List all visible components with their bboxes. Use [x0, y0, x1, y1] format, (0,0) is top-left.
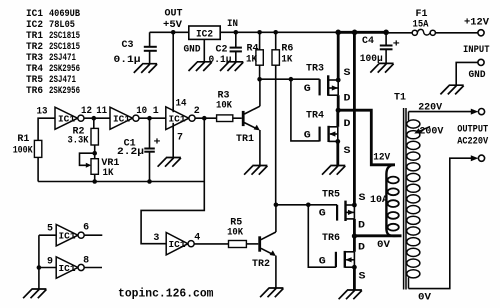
ground (TR6 source) — [339, 290, 362, 299]
node R6-TR2 junction — [274, 203, 279, 208]
wire IC2 gnd pin — [203, 39, 205, 61]
arrow 200V tap pointer — [414, 127, 430, 134]
label pin 6 — [83, 223, 89, 234]
label F1 15A — [413, 9, 429, 31]
node TR3 source junction — [336, 78, 341, 83]
node gate branch junction — [289, 77, 294, 82]
svg-text:2.2μ: 2.2μ — [117, 147, 144, 158]
label pin 5 — [47, 224, 53, 235]
svg-text:T1: T1 — [394, 93, 406, 104]
transistor Q5 TR5 mosfet — [337, 32, 354, 236]
capacitor C1 — [144, 118, 155, 181]
label GND pin — [184, 45, 201, 56]
wire gate bus TR3/TR4 — [260, 79, 320, 141]
node +5V junction — [171, 30, 176, 35]
svg-text:12: 12 — [81, 106, 92, 117]
svg-text:+: + — [393, 40, 400, 51]
node R4-TR1 junction — [257, 77, 262, 82]
svg-text:D: D — [358, 221, 365, 232]
svg-text:5: 5 — [47, 224, 53, 235]
transistor Q1 TR1 — [243, 79, 260, 165]
label S (TR5) — [359, 193, 366, 204]
node rail-TR5 junction — [352, 30, 358, 36]
svg-text:+5V: +5V — [163, 20, 182, 31]
node R4 top junction — [257, 30, 262, 35]
node OUT +5V label — [163, 9, 183, 32]
svg-text:1: 1 — [153, 106, 159, 117]
label pin 10 — [136, 106, 147, 117]
svg-text:100K: 100K — [13, 146, 33, 157]
ground (IC2) — [189, 62, 212, 71]
node R6 top junction — [273, 30, 278, 35]
ground (C3) — [134, 64, 157, 73]
label pin 14 — [176, 99, 187, 110]
svg-text:7: 7 — [177, 133, 183, 144]
svg-text:C4: C4 — [362, 36, 374, 47]
svg-text:8: 8 — [83, 255, 89, 266]
label D (TR4) — [344, 119, 351, 130]
svg-text:IN: IN — [227, 19, 238, 30]
label pin 8 — [83, 255, 89, 266]
label R4 value — [246, 44, 259, 66]
parts list text — [26, 9, 80, 97]
wire inv3 out to R3 — [195, 117, 217, 119]
inductor T1 secondary winding — [407, 112, 420, 289]
op-amp U2 inverter IC1b — [110, 107, 139, 129]
label 12V — [373, 153, 390, 164]
label S (TR4) — [344, 146, 351, 157]
svg-text:9: 9 — [47, 257, 53, 268]
terminal output 220V — [478, 109, 484, 115]
node TR6 source junction — [352, 265, 357, 270]
svg-text:4069UB: 4069UB — [49, 9, 80, 20]
svg-text:topinc.126.com: topinc.126.com — [118, 288, 214, 301]
svg-text:2SJ471: 2SJ471 — [49, 53, 76, 64]
svg-text:TR2: TR2 — [26, 42, 43, 53]
label G (TR6) — [319, 257, 326, 268]
resistor R5 — [229, 241, 259, 248]
label +12V INPUT — [463, 17, 490, 56]
watermark text — [118, 288, 214, 301]
svg-text:1K: 1K — [246, 55, 257, 66]
node gate branch junction 2 — [306, 203, 311, 208]
wire oscillator bottom bus — [38, 181, 204, 183]
label GND input — [469, 70, 486, 81]
svg-text:IC1: IC1 — [58, 115, 76, 125]
svg-text:2SJ471: 2SJ471 — [49, 75, 76, 86]
transformer core — [404, 108, 406, 290]
wire drain node 2 to primary bottom — [354, 234, 401, 237]
label C3 value — [114, 40, 141, 66]
svg-text:0V: 0V — [377, 240, 390, 251]
svg-text:2SC1815: 2SC1815 — [49, 42, 80, 53]
label C1 value — [117, 138, 161, 159]
svg-text:+: + — [154, 138, 161, 149]
node rail-TR3 junction — [335, 30, 341, 36]
wire pin14/pin7 vertical — [172, 32, 174, 157]
ground (pin7) — [158, 158, 181, 167]
ground (TR1 emitter) — [244, 166, 267, 175]
wire pin2 feedback down — [141, 118, 204, 244]
transistor Q6 TR6 mosfet — [336, 236, 355, 290]
wire inv4 out to R5 — [194, 243, 228, 245]
transistor Q2 TR2 — [260, 205, 276, 288]
node IN label — [227, 19, 238, 30]
label pin 1 — [153, 106, 159, 117]
svg-text:10K: 10K — [216, 101, 232, 112]
label TR2 — [252, 259, 270, 270]
node rail-C4 junction — [383, 30, 389, 36]
op-amp U5 inverter IC1e unused — [39, 224, 102, 246]
node 12 junction — [92, 116, 97, 121]
terminal output 2 — [478, 155, 484, 161]
label S (TR3) — [344, 68, 351, 79]
label TR1 — [236, 134, 254, 145]
resistor R4 — [256, 32, 263, 79]
label G (TR5) — [319, 208, 326, 219]
svg-text:15A: 15A — [413, 20, 429, 31]
node pin1 junction — [147, 116, 152, 121]
ground (TR4 source) — [322, 166, 345, 175]
wire rail to fuse — [387, 32, 412, 34]
svg-text:2: 2 — [194, 106, 200, 117]
svg-text:D: D — [344, 119, 351, 130]
transformer T1 label — [394, 93, 406, 104]
transistor Q3 TR3 mosfet — [320, 32, 339, 110]
svg-text:2SK2956: 2SK2956 — [49, 64, 80, 75]
label TR5 — [322, 190, 340, 201]
svg-text:S: S — [359, 272, 366, 283]
svg-text:78L05: 78L05 — [49, 20, 75, 31]
label D (TR3) — [344, 94, 351, 105]
svg-text:0.1μ: 0.1μ — [114, 55, 141, 66]
svg-text:10K: 10K — [227, 228, 243, 239]
svg-text:3.3K: 3.3K — [68, 135, 89, 146]
wire +5V out — [150, 31, 189, 33]
resistor R1 — [34, 140, 41, 181]
label 0V secondary — [418, 293, 431, 304]
svg-text:10: 10 — [136, 106, 147, 117]
svg-text:+12V: +12V — [464, 17, 489, 28]
ground (C2) — [220, 62, 243, 71]
op-amp U3 inverter IC1c — [166, 107, 195, 130]
label R1 value — [13, 134, 33, 157]
svg-text:TR5: TR5 — [322, 190, 340, 201]
label pin 12 — [81, 106, 92, 117]
svg-text:S: S — [344, 146, 351, 157]
svg-text:IC1: IC1 — [59, 232, 77, 242]
potentiometer VR1 — [80, 153, 99, 181]
svg-text:2SK2956: 2SK2956 — [49, 86, 80, 97]
svg-text:14: 14 — [176, 99, 187, 110]
label 200V — [419, 127, 443, 138]
svg-text:C2: C2 — [216, 45, 228, 56]
svg-text:OUTPUT: OUTPUT — [457, 124, 488, 135]
svg-text:11: 11 — [96, 106, 107, 117]
svg-text:R4: R4 — [247, 44, 259, 55]
wire GND terminal down — [456, 62, 478, 85]
svg-text:INPUT: INPUT — [463, 45, 490, 56]
transistor Q4 TR4 mosfet — [320, 110, 338, 165]
label pin 7 — [177, 133, 183, 144]
label pin 11 — [96, 106, 107, 117]
svg-text:S: S — [344, 68, 351, 79]
node TR5 source junction — [352, 203, 357, 208]
svg-text:AC220V: AC220V — [457, 137, 488, 148]
svg-text:G: G — [304, 84, 311, 95]
wire +12V rail thick — [337, 31, 387, 34]
svg-text:0V: 0V — [418, 293, 431, 304]
wire 220V tap — [409, 111, 475, 113]
svg-text:TR3: TR3 — [306, 64, 324, 75]
terminal GND input — [478, 59, 484, 65]
node TR5/TR6 drain junction — [352, 233, 357, 238]
label D (TR5) — [358, 221, 365, 232]
wire inv1 out — [84, 117, 110, 119]
svg-text:D: D — [358, 243, 365, 254]
node TR4 source junction — [335, 139, 340, 144]
svg-text:C3: C3 — [122, 40, 134, 51]
wire secondary bottom to output terminal — [409, 158, 475, 288]
wire IC2 to IN rail — [220, 31, 338, 33]
node unused input junction — [37, 265, 42, 270]
arrow output 2 — [471, 155, 479, 161]
label 0V primary — [377, 240, 390, 251]
inductor T1 primary winding — [386, 165, 398, 236]
svg-text:13: 13 — [37, 106, 48, 117]
label R3 value — [216, 91, 232, 112]
op-amp U6 inverter IC1f unused — [39, 257, 102, 279]
op-amp U1 inverter IC1a — [55, 107, 84, 129]
label TR6 — [322, 233, 340, 244]
wire pin13 input — [38, 118, 55, 140]
capacitor C3 — [144, 32, 157, 63]
svg-text:4: 4 — [194, 233, 200, 244]
label D (TR6) — [358, 243, 365, 254]
wire unused inputs to ground — [38, 235, 40, 289]
svg-text:R1: R1 — [17, 134, 29, 145]
ground (input GND) — [440, 85, 463, 94]
wire drain node to primary top — [338, 110, 395, 165]
resistor R2 — [91, 118, 98, 159]
svg-text:IC1: IC1 — [113, 115, 131, 125]
label R5 value — [227, 218, 243, 239]
label G (TR3) — [304, 84, 311, 95]
svg-text:6: 6 — [83, 223, 89, 234]
svg-text:1K: 1K — [103, 168, 114, 179]
node pin2 junction — [202, 116, 207, 121]
svg-text:S: S — [359, 193, 366, 204]
svg-text:IC1: IC1 — [59, 264, 77, 274]
svg-text:R6: R6 — [281, 44, 293, 55]
node TR3/TR4 drain junction — [336, 108, 341, 113]
svg-text:220V: 220V — [418, 102, 442, 113]
svg-text:TR1: TR1 — [26, 31, 43, 42]
node VR1 bus junction — [92, 179, 97, 184]
svg-text:TR4: TR4 — [306, 111, 324, 122]
arrow 220V — [471, 109, 479, 115]
svg-text:TR2: TR2 — [252, 259, 270, 270]
svg-text:TR6: TR6 — [26, 86, 43, 97]
wire fuse to +12V terminal — [435, 32, 478, 34]
wire inv2 out — [139, 117, 166, 119]
svg-text:IC1: IC1 — [26, 9, 43, 20]
svg-text:0.1μ: 0.1μ — [209, 55, 232, 66]
label pin 2 — [194, 106, 200, 117]
resistor R6 — [272, 32, 279, 205]
label pin 3 — [153, 233, 159, 244]
svg-text:F1: F1 — [416, 9, 428, 20]
svg-text:3: 3 — [153, 233, 159, 244]
wire gate bus TR5/TR6 — [276, 205, 337, 267]
svg-text:D: D — [344, 94, 351, 105]
svg-text:G: G — [319, 257, 326, 268]
op-amp U4 inverter IC1d — [166, 233, 194, 255]
node R2-VR1 junction — [92, 151, 97, 156]
label 10A — [370, 195, 388, 206]
svg-text:TR3: TR3 — [26, 53, 43, 64]
svg-text:GND: GND — [184, 45, 201, 56]
svg-text:IC2: IC2 — [26, 20, 43, 31]
label TR4 — [306, 111, 324, 122]
svg-text:IC2: IC2 — [196, 30, 213, 41]
svg-text:TR5: TR5 — [26, 75, 43, 86]
label R2 value — [68, 127, 89, 147]
svg-text:200V: 200V — [419, 127, 443, 138]
label R6 value — [281, 44, 293, 66]
ground (unused inputs) — [23, 289, 46, 298]
resistor R3 — [217, 115, 242, 122]
svg-text:GND: GND — [469, 70, 486, 81]
node IN junction — [234, 30, 239, 35]
label C2 value — [209, 45, 232, 67]
svg-text:G: G — [304, 131, 311, 142]
svg-text:TR4: TR4 — [26, 64, 43, 75]
label C4 value — [360, 36, 400, 65]
regulator IC2 — [189, 26, 220, 39]
label 220V — [418, 102, 442, 113]
svg-text:1K: 1K — [281, 55, 292, 66]
svg-text:G: G — [319, 208, 326, 219]
label TR3 — [306, 64, 324, 75]
svg-text:TR1: TR1 — [236, 134, 254, 145]
label S (TR6) — [359, 272, 366, 283]
svg-text:IC1: IC1 — [169, 240, 187, 250]
capacitor C2 — [230, 32, 242, 62]
ground (C4) — [370, 63, 393, 72]
label pin 13 — [37, 106, 48, 117]
ground (TR2 emitter) — [260, 288, 283, 297]
label VR1 value — [101, 158, 119, 179]
capacitor C4 — [380, 32, 393, 63]
label G (TR4) — [304, 131, 311, 142]
node C1 bus junction — [147, 179, 152, 184]
fuse F1 — [412, 29, 435, 35]
svg-text:IC1: IC1 — [169, 115, 187, 125]
svg-text:2SC1815: 2SC1815 — [49, 31, 80, 42]
label OUTPUT AC220V — [457, 124, 488, 147]
svg-text:12V: 12V — [373, 153, 390, 164]
label pin 9 — [47, 257, 53, 268]
label pin 4 — [194, 233, 200, 244]
svg-text:OUT: OUT — [165, 9, 183, 20]
svg-text:TR6: TR6 — [322, 233, 340, 244]
svg-text:10A: 10A — [370, 195, 388, 206]
terminal +12V — [478, 30, 484, 36]
